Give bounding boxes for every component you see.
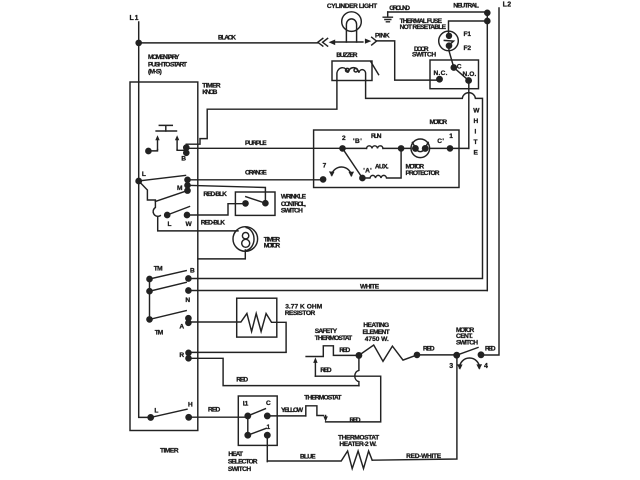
timer terminal B(tm) dot — [186, 276, 191, 281]
svg-text:RED-BLK: RED-BLK — [201, 220, 226, 227]
timer TM arm 3 — [150, 311, 187, 320]
svg-text:GROUND: GROUND — [389, 5, 410, 12]
svg-text:B: B — [190, 268, 195, 275]
svg-text:B: B — [181, 156, 186, 163]
svg-text:F2: F2 — [464, 45, 472, 52]
svg-text:1: 1 — [449, 133, 453, 140]
ground symbol — [383, 12, 392, 22]
svg-text:TM: TM — [154, 266, 163, 273]
svg-text:RED: RED — [485, 346, 496, 353]
wire YELLOW heat selector C to thermostat — [267, 415, 306, 417]
timer cam bracket below L — [139, 181, 161, 216]
svg-text:WHITE: WHITE — [360, 284, 380, 291]
wire PINK from connector to door switch N.C. — [377, 41, 438, 80]
timer terminal A dots — [186, 316, 191, 321]
timer terminal H dot — [186, 415, 191, 420]
svg-text:L1: L1 — [243, 400, 249, 407]
connector arrow right (filled, pointing right) — [365, 39, 371, 44]
buzzer coil — [337, 68, 366, 81]
timer cam follower to timer motor — [158, 217, 238, 231]
wrinkle switch terminal 1A — [263, 201, 268, 206]
wire timer motor bottom to timer edge — [198, 250, 245, 259]
motor terminal 7 — [321, 177, 326, 182]
svg-text:1: 1 — [267, 424, 271, 431]
timer motor body — [233, 227, 258, 252]
wire L2 vertical down to motor cent switch 4 — [481, 8, 499, 355]
heat selector box — [238, 396, 277, 445]
push-to-start arrow right — [176, 139, 178, 149]
svg-text:RED: RED — [350, 417, 361, 424]
wire BLACK from L1 to connector — [139, 42, 318, 44]
thermostat contact arrow (down) — [325, 416, 327, 418]
timer L-W arm — [167, 207, 189, 216]
junction neutral lower — [485, 18, 490, 23]
svg-text:C': C' — [437, 138, 444, 145]
svg-text:RUN: RUN — [371, 133, 382, 140]
timer outer box — [130, 82, 198, 431]
wire neutral to timer N terminal (white) — [188, 290, 487, 292]
svg-text:CYLINDER LIGHT: CYLINDER LIGHT — [327, 3, 377, 10]
wire neutral vertical down right side — [486, 13, 488, 291]
heat selector arm L1 — [248, 409, 266, 416]
motor travel arc — [332, 167, 352, 175]
svg-text:WRINKLE: WRINKLE — [281, 193, 307, 200]
svg-text:SELECTOR: SELECTOR — [228, 458, 258, 465]
svg-text:YELLOW: YELLOW — [281, 407, 304, 414]
thermal fuse terminal F1 — [447, 33, 452, 38]
buzzer box — [332, 61, 372, 81]
svg-text:RED: RED — [208, 406, 221, 413]
svg-text:RED-WHITE: RED-WHITE — [406, 453, 442, 460]
svg-text:4: 4 — [484, 363, 488, 370]
svg-text:RED: RED — [320, 367, 332, 374]
svg-text:PINK: PINK — [375, 33, 390, 40]
svg-text:N: N — [185, 297, 190, 304]
svg-text:RESISTOR: RESISTOR — [285, 310, 316, 317]
resistor 3.77K box — [237, 298, 277, 337]
safety thermostat contact arrow (up) — [314, 362, 316, 376]
svg-text:7: 7 — [323, 162, 327, 169]
wire push-start right to B terminal — [177, 149, 184, 152]
svg-text:RED: RED — [423, 346, 435, 353]
svg-text:RED: RED — [339, 347, 350, 354]
buzzer coil loops — [346, 68, 350, 72]
wrinkle switch arm — [246, 197, 266, 204]
svg-text:AUX.: AUX. — [375, 163, 389, 170]
svg-text:MOTOR: MOTOR — [264, 243, 281, 250]
thermostat body bump — [306, 406, 324, 416]
svg-text:A: A — [179, 324, 184, 331]
wire PURPLE timer B to motor 2 — [186, 147, 342, 149]
wire RED thermostat to safety thermostat arrow — [315, 376, 380, 422]
push-to-start arrow left — [157, 139, 159, 149]
wire RED-BLK timer W to wrinkle 1 — [187, 204, 244, 215]
svg-text:RED: RED — [236, 377, 248, 384]
timer TM column — [149, 279, 151, 319]
svg-text:TM: TM — [155, 330, 164, 337]
svg-text:W: W — [473, 108, 480, 115]
svg-text:N.C.: N.C. — [434, 70, 448, 77]
motor cent switch travel arc — [460, 358, 480, 368]
svg-text:L1: L1 — [130, 15, 139, 22]
timer M cam arm down-left — [155, 191, 187, 202]
motor junction dot — [399, 146, 404, 151]
svg-text:N.O.: N.O. — [463, 71, 477, 78]
connector chevron right — [372, 37, 377, 45]
thermal fuse terminal F2 — [446, 43, 451, 48]
timer terminal N dot — [186, 288, 191, 293]
wire protector wiring — [401, 147, 447, 149]
junction L1-BLACK — [136, 40, 141, 45]
cylinder light lamp circle — [342, 12, 362, 32]
wire neutral to thermal fuse — [449, 21, 488, 34]
svg-text:PURPLE: PURPLE — [245, 140, 267, 147]
svg-text:L: L — [142, 171, 146, 178]
wire lamp section — [335, 41, 363, 43]
svg-text:H: H — [188, 402, 193, 409]
heat selector arm lower — [248, 428, 266, 435]
heating element right dot — [414, 352, 419, 357]
motor cent switch terminal 4 — [478, 352, 483, 357]
wire timer A to 3.77K resistor and down to R node — [188, 314, 286, 352]
wrinkle switch terminal 1 — [243, 201, 248, 206]
heat selector terminal C — [265, 413, 270, 418]
wire BLUE up to heat selector 1 — [266, 435, 268, 461]
wrinkle control switch box — [235, 192, 275, 215]
wire motor cent 3 down to thermostat heater — [372, 355, 457, 460]
timer L-W contact dots — [165, 212, 170, 217]
svg-text:L2: L2 — [503, 2, 512, 9]
svg-text:W: W — [186, 221, 193, 228]
svg-text:RED-BLK: RED-BLK — [203, 191, 227, 198]
svg-text:BLACK: BLACK — [218, 35, 236, 42]
wire RED timer H to heat selector L1 — [189, 416, 246, 418]
svg-text:HEAT: HEAT — [228, 451, 243, 458]
svg-text:C: C — [266, 400, 271, 407]
wire timer B contact up to buzzer left lead — [186, 81, 337, 148]
svg-text:R: R — [179, 352, 184, 359]
thermostat heater 2W zigzag — [267, 451, 372, 469]
svg-text:I: I — [475, 129, 477, 136]
timer terminal R dots — [186, 350, 191, 355]
svg-text:SWITCH: SWITCH — [228, 466, 251, 473]
heat selector terminal L1 — [245, 413, 250, 418]
svg-text:SWITCH: SWITCH — [281, 208, 303, 215]
heating element 4750W zigzag — [359, 345, 417, 361]
svg-text:L: L — [168, 221, 172, 228]
svg-text:BUZZER: BUZZER — [336, 52, 358, 59]
svg-text:NEUTRAL: NEUTRAL — [453, 2, 479, 9]
svg-text:ORANGE: ORANGE — [245, 169, 267, 176]
timer TM arm 1 — [150, 271, 187, 279]
svg-text:E: E — [474, 150, 479, 157]
motor terminal A — [360, 175, 365, 180]
timer TM arm 2 — [150, 282, 187, 291]
timer motor coil — [242, 233, 248, 239]
heater junction dot — [356, 353, 361, 358]
motor protector contacts — [413, 146, 418, 151]
svg-text:BLUE: BLUE — [300, 454, 316, 461]
wire motor 1 to door N.O. riser — [450, 147, 469, 149]
thermal fuse body — [439, 31, 459, 51]
svg-text:HEATER-2 W.: HEATER-2 W. — [339, 441, 377, 448]
heat selector lower-left dot — [245, 433, 250, 438]
motor RUN winding — [367, 146, 384, 149]
timer L junction dot — [136, 178, 141, 183]
timer L arm toward B — [139, 175, 186, 181]
junction neutral upper — [485, 10, 490, 15]
cylinder light filament loop and leads — [346, 19, 356, 42]
push-to-start moving bar — [156, 130, 176, 132]
svg-text:NOT RESETABLE: NOT RESETABLE — [400, 24, 447, 31]
wire run winding to junction — [343, 147, 402, 149]
door switch terminal N.C. — [437, 77, 442, 82]
svg-text:M: M — [177, 185, 183, 192]
wire buzzer right lead to white line (hops over N.O. wire) — [188, 81, 482, 279]
svg-text:SWITCH: SWITCH — [412, 52, 436, 59]
svg-text:MOMENTARY: MOMENTARY — [148, 54, 180, 61]
svg-text:L: L — [154, 408, 158, 415]
motor box — [314, 130, 459, 188]
thermal fuse element — [444, 36, 453, 46]
heat selector terminal 1 — [265, 433, 270, 438]
push-start left contact dot — [146, 148, 151, 153]
heat selector link vertical — [247, 416, 249, 435]
safety thermostat body — [306, 346, 357, 357]
wire RED-BLK timer M to wrinkle 1A — [188, 185, 266, 201]
svg-text:TIMER: TIMER — [160, 448, 179, 455]
wire RED timer R upper to resistor node — [189, 351, 287, 353]
wire L1 vertical into timer down to L contact — [139, 22, 148, 417]
svg-text:THERMOSTAT: THERMOSTAT — [315, 335, 353, 342]
svg-text:KNOB: KNOB — [202, 89, 217, 96]
door switch box — [430, 60, 479, 89]
svg-text:'B': 'B' — [353, 138, 362, 145]
motor switch arm 2 to A — [343, 148, 363, 178]
wire ORANGE timer M to motor 7 — [188, 179, 324, 181]
wire NEUTRAL from ground to L2 area — [388, 11, 488, 13]
motor terminal 2 — [340, 146, 345, 151]
door switch terminal N.O. — [466, 78, 471, 83]
svg-text:(M-S): (M-S) — [148, 69, 162, 76]
connector chevrons left (black wire) — [318, 38, 328, 46]
wire door switch N.O. down to motor terminal 1 — [468, 81, 470, 149]
push-to-start button cap — [159, 125, 172, 131]
timer L-H arm — [151, 409, 187, 417]
svg-text:T: T — [474, 139, 478, 146]
wire push-start left contact — [150, 150, 158, 151]
svg-text:SAFETY: SAFETY — [315, 328, 338, 335]
svg-text:3: 3 — [449, 363, 453, 370]
svg-text:'A': 'A' — [363, 168, 372, 175]
buzzer striker arm — [371, 61, 379, 74]
connector arrow left (filled, pointing left) — [329, 40, 336, 46]
svg-text:2: 2 — [342, 135, 346, 142]
svg-text:PUSH TO START: PUSH TO START — [148, 61, 187, 68]
svg-text:SWITCH: SWITCH — [456, 339, 478, 346]
door switch arm C to N.O. — [454, 68, 469, 81]
wire thermal fuse to door switch C — [449, 46, 454, 68]
motor cent switch terminal 3 — [454, 353, 459, 358]
timer TM contact dots left — [147, 276, 152, 281]
timer terminal B dots — [184, 145, 189, 150]
svg-text:4750 W.: 4750 W. — [365, 336, 389, 343]
wire hop over thermostat red wire — [355, 355, 359, 385]
timer terminal M dots — [185, 177, 190, 182]
motor protector body — [411, 139, 430, 158]
svg-text:THERMOSTAT: THERMOSTAT — [304, 395, 341, 402]
svg-text:HEATING: HEATING — [363, 322, 389, 329]
wire RED heating element to motor cent switch 3 — [417, 354, 457, 356]
svg-text:ELEMENT: ELEMENT — [363, 329, 390, 336]
door switch terminal C — [451, 65, 456, 70]
svg-text:H: H — [474, 118, 479, 125]
motor cent switch arm — [457, 348, 478, 356]
timer terminal L bottom dot — [148, 415, 153, 420]
motor terminal 1 — [447, 146, 452, 151]
svg-text:F1: F1 — [464, 31, 472, 38]
svg-text:MOTOR: MOTOR — [430, 119, 448, 126]
svg-text:PROTECTOR: PROTECTOR — [406, 170, 440, 177]
motor AUX winding — [362, 148, 401, 178]
wire RED timer R lower down and right to heater node — [189, 358, 359, 385]
svg-text:C: C — [457, 63, 462, 70]
